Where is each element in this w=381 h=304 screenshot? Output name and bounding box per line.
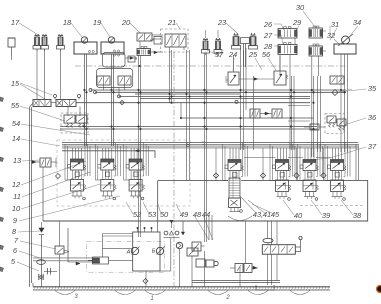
svg-text:36: 36 bbox=[368, 113, 377, 122]
svg-text:35: 35 bbox=[368, 84, 377, 93]
svg-text:45: 45 bbox=[271, 210, 280, 219]
svg-text:2: 2 bbox=[225, 295, 230, 301]
svg-text:30: 30 bbox=[296, 3, 305, 12]
svg-text:Б: Б bbox=[186, 143, 190, 149]
svg-text:31: 31 bbox=[331, 20, 339, 29]
svg-text:1: 1 bbox=[150, 296, 153, 302]
svg-text:29: 29 bbox=[292, 18, 302, 27]
svg-text:32: 32 bbox=[327, 31, 336, 40]
svg-text:39: 39 bbox=[322, 211, 331, 220]
svg-text:38: 38 bbox=[353, 211, 362, 220]
svg-text:21: 21 bbox=[167, 18, 176, 27]
svg-text:Б: Б bbox=[152, 249, 156, 255]
svg-text:18: 18 bbox=[63, 18, 72, 27]
svg-text:11: 11 bbox=[13, 192, 21, 201]
svg-text:A: A bbox=[126, 250, 131, 256]
svg-text:48: 48 bbox=[193, 210, 202, 219]
svg-text:23: 23 bbox=[217, 18, 227, 27]
svg-text:37: 37 bbox=[368, 142, 377, 151]
svg-text:17: 17 bbox=[11, 18, 20, 27]
svg-text:55: 55 bbox=[11, 101, 20, 110]
svg-text:24: 24 bbox=[228, 50, 237, 59]
svg-text:19: 19 bbox=[93, 18, 102, 27]
svg-text:54: 54 bbox=[12, 119, 20, 128]
svg-text:13: 13 bbox=[13, 156, 22, 165]
svg-text:10: 10 bbox=[12, 204, 21, 213]
svg-text:15: 15 bbox=[11, 79, 20, 88]
svg-text:27: 27 bbox=[263, 31, 273, 40]
svg-text:20: 20 bbox=[121, 18, 131, 27]
svg-text:26: 26 bbox=[263, 20, 273, 29]
svg-text:12: 12 bbox=[12, 180, 21, 189]
svg-text:14: 14 bbox=[12, 134, 20, 143]
svg-text:53: 53 bbox=[148, 210, 157, 219]
svg-text:25: 25 bbox=[248, 50, 258, 59]
svg-text:50: 50 bbox=[160, 210, 169, 219]
svg-text:56: 56 bbox=[262, 50, 271, 59]
svg-text:49: 49 bbox=[180, 210, 189, 219]
svg-text:40: 40 bbox=[294, 211, 303, 220]
svg-text:34: 34 bbox=[353, 18, 361, 27]
